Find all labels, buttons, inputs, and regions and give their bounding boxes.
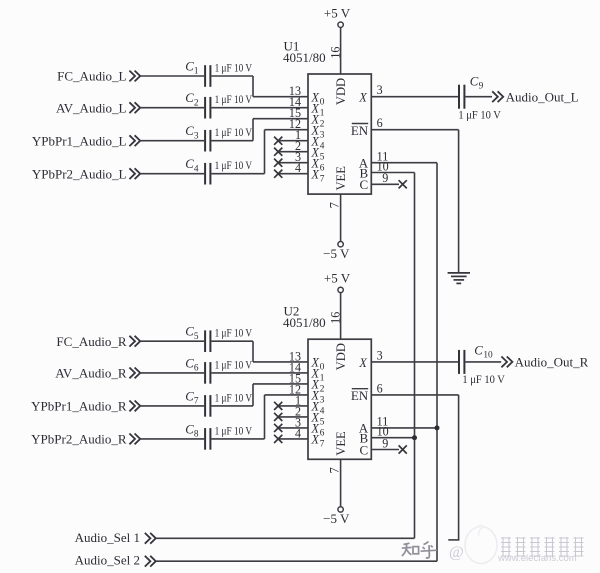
label X3	[311, 389, 325, 406]
svg-text:4051/80: 4051/80	[283, 315, 326, 330]
wire pin 12 (X3)	[265, 394, 309, 396]
svg-text:9: 9	[479, 82, 484, 92]
wire U2 pin9 C no-connect	[371, 449, 399, 451]
label X4	[311, 400, 325, 417]
svg-text:0: 0	[320, 97, 325, 107]
power -5 V node (U2)	[323, 507, 350, 526]
ground symbol	[448, 273, 470, 284]
capacitor C3 1uF 10V	[185, 124, 252, 151]
svg-text:FC_Audio_R: FC_Audio_R	[56, 334, 126, 349]
label X6	[311, 422, 325, 439]
port FC_Audio_R	[56, 334, 140, 349]
svg-text:6: 6	[320, 163, 325, 173]
capacitor C7 1uF 10V	[185, 389, 252, 416]
svg-text:4: 4	[295, 426, 301, 440]
capacitor C4 1uF 10V	[185, 157, 252, 184]
svg-text:EN: EN	[351, 388, 369, 403]
junction A net at U2 pin11	[435, 425, 440, 430]
svg-text:C: C	[474, 344, 483, 358]
svg-text:4: 4	[295, 161, 301, 175]
svg-text:3: 3	[320, 130, 325, 140]
svg-text:3: 3	[320, 396, 325, 406]
svg-text:X: X	[358, 91, 367, 105]
svg-text:C: C	[470, 75, 479, 89]
svg-text:Audio_Out_R: Audio_Out_R	[515, 355, 589, 370]
svg-text:2: 2	[320, 119, 325, 129]
wire C4 to IC	[211, 173, 264, 175]
wire FC_Audio_R to C5	[141, 340, 205, 342]
wire pin 13 (X0)	[253, 361, 308, 363]
svg-text:7: 7	[327, 202, 341, 208]
svg-text:16: 16	[328, 47, 342, 59]
port YPbPr1_Audio_R	[31, 399, 140, 414]
no-connect X on pin 4	[274, 435, 282, 443]
svg-text:FC_Audio_L: FC_Audio_L	[57, 69, 126, 84]
label X2	[311, 378, 325, 395]
svg-text:5: 5	[320, 152, 325, 162]
wire U1 pin10 B select	[371, 172, 414, 174]
wire pin7 VEE to -5V	[340, 194, 342, 241]
svg-text:6: 6	[377, 381, 383, 395]
svg-text:C: C	[185, 422, 194, 436]
svg-text:YPbPr2_Audio_L: YPbPr2_Audio_L	[32, 166, 127, 181]
no-connect X on pin 2	[274, 413, 282, 421]
watermark swirl logo	[465, 526, 497, 564]
svg-text:3: 3	[377, 83, 383, 97]
wire U2 pin10 B select	[371, 437, 414, 439]
IC designator U1 4051/80	[283, 39, 326, 65]
svg-text:2: 2	[194, 98, 199, 108]
wire C9 to output port	[465, 96, 492, 98]
power +5 V node (U2)	[324, 271, 351, 293]
wire C7 to IC	[211, 405, 253, 407]
svg-text:1 μF 10 V: 1 μF 10 V	[215, 127, 253, 139]
svg-text:VEE: VEE	[334, 166, 348, 191]
svg-text:YPbPr1_Audio_R: YPbPr1_Audio_R	[31, 399, 127, 414]
capacitor C5 1uF 10V	[185, 325, 252, 352]
svg-text:+5 V: +5 V	[324, 271, 351, 286]
no-connect X on pin 3	[274, 159, 282, 167]
wire pin 13 (X0)	[253, 96, 308, 98]
op IC body U2 4051/80 analog multiplexer	[308, 339, 371, 459]
capacitor C6 1uF 10V	[185, 356, 252, 383]
wire pin 4 (X7)	[278, 173, 308, 175]
wire U1 pin11 A select	[371, 162, 437, 164]
svg-text:7: 7	[194, 397, 199, 407]
pin number 16	[328, 312, 342, 324]
capacitor C2 1uF 10V	[185, 91, 252, 118]
port Audio_Sel 2	[75, 553, 156, 568]
svg-text:YPbPr1_Audio_L: YPbPr1_Audio_L	[32, 133, 127, 148]
svg-text:8: 8	[194, 430, 199, 440]
wire net A vertical (U1 pin11 to Audio_Sel 2)	[436, 163, 438, 562]
wire pin 14 (X1)	[211, 107, 308, 109]
wire C3 to IC	[211, 140, 253, 142]
svg-text:X: X	[311, 433, 320, 447]
port Audio_Sel 1	[75, 530, 156, 545]
svg-text:EN: EN	[351, 123, 369, 138]
wire pin 2 (X5)	[278, 416, 308, 418]
svg-text:0: 0	[320, 363, 325, 373]
wire C1 to IC	[211, 75, 253, 77]
wire pin7 VEE to -5V	[340, 459, 342, 506]
power -5 V node (U1)	[323, 242, 350, 261]
svg-text:4: 4	[320, 407, 325, 417]
svg-text:C: C	[185, 356, 194, 370]
svg-text:1 μF 10 V: 1 μF 10 V	[215, 160, 253, 172]
no-connect X on U2 pin9	[399, 445, 407, 453]
svg-text:VEE: VEE	[334, 431, 348, 456]
svg-text:7: 7	[320, 174, 325, 184]
wire AV_Audio_L to C2	[141, 107, 205, 109]
pin number 7	[327, 467, 341, 473]
svg-text:10: 10	[483, 351, 493, 361]
wire FC_Audio_L to C1	[141, 75, 205, 77]
svg-text:C: C	[185, 59, 194, 73]
svg-text:7: 7	[320, 440, 325, 450]
label X1	[311, 367, 325, 384]
svg-text:1: 1	[320, 374, 325, 384]
wire U2 pin3 X output	[371, 361, 458, 363]
wire YPbPr2_Audio_R to C8	[141, 438, 205, 440]
svg-text:VDD: VDD	[334, 78, 348, 105]
svg-text:1 μF 10 V: 1 μF 10 V	[215, 62, 253, 74]
junction B net at U2 pin10	[412, 435, 417, 440]
svg-text:2: 2	[320, 385, 325, 395]
svg-text:7: 7	[327, 467, 341, 473]
svg-text:C: C	[185, 157, 194, 171]
svg-text:1 μF 10 V: 1 μF 10 V	[215, 359, 253, 371]
wire pin 14 (X1)	[211, 372, 308, 374]
svg-text:4051/80: 4051/80	[283, 50, 326, 65]
svg-text:1 μF 10 V: 1 μF 10 V	[215, 328, 253, 340]
pin number 16	[328, 47, 342, 59]
watermark embossed company text	[449, 537, 584, 564]
wire pin 1 (X4)	[278, 140, 308, 142]
wire Audio_Sel 1 to B net and U2 /EN	[156, 537, 414, 539]
no-connect X on pin 1	[274, 137, 282, 145]
svg-text:3: 3	[194, 131, 199, 141]
wire U1 pin3 X output	[371, 96, 458, 98]
no-connect X on pin 1	[274, 402, 282, 410]
label X4	[311, 134, 325, 151]
wire Audio_Sel 2 to A net	[156, 560, 437, 562]
wire U1 pin6 /EN to ground	[371, 129, 458, 131]
wire stub U2 /EN riser foot	[448, 539, 459, 541]
svg-text:www.elecfans.com: www.elecfans.com	[497, 553, 577, 564]
svg-text:6: 6	[377, 116, 383, 130]
power +5 V node (U1)	[324, 5, 351, 27]
wire pin 15 (X2)	[253, 383, 308, 385]
port FC_Audio_L	[57, 69, 140, 84]
no-connect X on pin 3	[274, 424, 282, 432]
svg-text:4: 4	[194, 164, 199, 174]
svg-text:1 μF 10 V: 1 μF 10 V	[458, 109, 501, 121]
svg-text:4: 4	[320, 141, 325, 151]
label X1	[311, 101, 325, 118]
svg-text:VDD: VDD	[334, 343, 348, 370]
svg-text:C: C	[185, 91, 194, 105]
svg-text:C: C	[185, 325, 194, 339]
capacitor C8 1uF 10V	[185, 422, 252, 449]
svg-text:1: 1	[320, 108, 325, 118]
svg-text:X: X	[358, 356, 367, 370]
no-connect X on pin 2	[274, 148, 282, 156]
svg-text:1 μF 10 V: 1 μF 10 V	[215, 392, 253, 404]
wire pin 3 (X6)	[278, 162, 308, 164]
port YPbPr2_Audio_R	[31, 432, 140, 447]
svg-text:C: C	[360, 177, 369, 192]
svg-text:AV_Audio_L: AV_Audio_L	[56, 100, 127, 115]
label X5	[311, 411, 325, 428]
label X3	[311, 123, 325, 140]
svg-text:+5 V: +5 V	[324, 5, 351, 20]
no-connect X on U1 pin9	[399, 180, 407, 188]
wire net B vertical (U1 pin10 to Audio_Sel 1)	[414, 173, 416, 539]
svg-text:X: X	[311, 167, 320, 181]
label /EN (enable, overline)	[351, 388, 369, 403]
label X6	[311, 156, 325, 173]
label /EN (enable, overline)	[351, 123, 369, 138]
wire U2 pin6 /EN down to Audio_Sel 1	[371, 394, 458, 396]
wire U2 pin11 A select	[371, 427, 437, 429]
svg-text:1: 1	[194, 67, 199, 77]
watermark text 知乎	[402, 542, 437, 559]
svg-text:5: 5	[320, 418, 325, 428]
svg-text:6: 6	[194, 364, 199, 374]
wire pin16 U1 VDD to +5V	[340, 28, 342, 74]
wire pin 1 (X4)	[278, 405, 308, 407]
wire AV_Audio_R to C6	[141, 372, 205, 374]
svg-text:AV_Audio_R: AV_Audio_R	[55, 366, 127, 381]
port Audio_Out_R	[501, 355, 588, 370]
svg-text:C: C	[185, 389, 194, 403]
label X5	[311, 145, 325, 162]
svg-text:Audio_Sel 2: Audio_Sel 2	[75, 553, 140, 568]
wire pin 3 (X6)	[278, 427, 308, 429]
svg-text:−5 V: −5 V	[323, 511, 350, 526]
capacitor C1 1uF 10V	[185, 59, 252, 86]
wire YPbPr1_Audio_R to C7	[141, 405, 205, 407]
svg-text:YPbPr2_Audio_R: YPbPr2_Audio_R	[31, 432, 127, 447]
pin number 7	[327, 202, 341, 208]
wire pin16 U2 VDD to +5V	[340, 293, 342, 339]
port AV_Audio_R	[55, 366, 140, 381]
svg-text:C: C	[185, 124, 194, 138]
port AV_Audio_L	[56, 100, 140, 115]
label X0	[311, 90, 325, 107]
svg-text:Audio_Sel 1: Audio_Sel 1	[75, 530, 140, 545]
label X7	[311, 433, 325, 450]
wire U1 pin9 C no-connect	[371, 183, 399, 185]
port YPbPr2_Audio_L	[32, 166, 140, 181]
port Audio_Out_L	[492, 89, 578, 104]
wire YPbPr1_Audio_L to C3	[141, 140, 205, 142]
no-connect X on pin 4	[274, 170, 282, 178]
label X7	[311, 167, 325, 184]
svg-text:5: 5	[194, 332, 199, 342]
svg-text:1 μF 10 V: 1 μF 10 V	[462, 374, 505, 386]
svg-text:@: @	[449, 544, 464, 561]
svg-text:C: C	[360, 442, 369, 457]
svg-text:Audio_Out_L: Audio_Out_L	[506, 89, 579, 104]
op IC body U1 4051/80 analog multiplexer	[308, 74, 371, 194]
port YPbPr1_Audio_L	[32, 133, 140, 148]
svg-text:1 μF 10 V: 1 μF 10 V	[215, 94, 253, 106]
svg-text:6: 6	[320, 429, 325, 439]
svg-text:16: 16	[328, 312, 342, 324]
wire C5 to IC	[211, 340, 253, 342]
label X0	[311, 356, 325, 373]
svg-text:9: 9	[382, 436, 388, 450]
svg-text:−5 V: −5 V	[323, 246, 350, 261]
capacitor C10 1uF 10V	[458, 344, 506, 386]
svg-text:9: 9	[382, 171, 388, 185]
wire C8 to IC	[211, 438, 264, 440]
wire C10 to output port	[465, 361, 501, 363]
label X2	[311, 112, 325, 129]
IC designator U2 4051/80	[283, 304, 326, 330]
svg-text:3: 3	[377, 348, 383, 362]
wire pin 12 (X3)	[265, 129, 309, 131]
wire YPbPr2_Audio_L to C4	[141, 173, 205, 175]
svg-text:1 μF 10 V: 1 μF 10 V	[215, 425, 253, 437]
wire pin 2 (X5)	[278, 151, 308, 153]
wire pin 4 (X7)	[278, 438, 308, 440]
capacitor C9 1uF 10V	[458, 75, 502, 122]
wire pin 15 (X2)	[253, 118, 308, 120]
